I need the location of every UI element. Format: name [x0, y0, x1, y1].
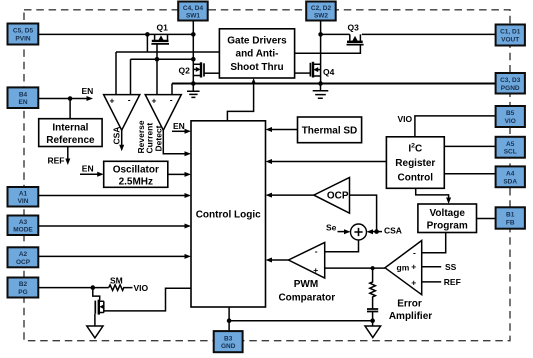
wire VOUT line — [321, 33, 496, 35]
svg-text:VIN: VIN — [18, 198, 29, 205]
wire VIN to control logic — [38, 193, 191, 198]
svg-text:A5: A5 — [506, 141, 515, 148]
wire RCD- drop — [171, 84, 173, 96]
svg-text:REF: REF — [444, 277, 461, 287]
svg-text:VIO: VIO — [398, 114, 413, 124]
wire OCP input branch — [350, 195, 379, 234]
svg-text:+: + — [110, 96, 115, 106]
svg-text:REF: REF — [48, 155, 65, 165]
label VIO (I2C) — [398, 114, 413, 124]
svg-text:C5, D5: C5, D5 — [13, 28, 34, 35]
svg-text:SW2: SW2 — [314, 12, 328, 19]
svg-text:+: + — [152, 96, 157, 106]
block Gate Drivers and Anti-Shoot Thru — [219, 29, 294, 78]
node SW2 top junction — [318, 32, 323, 37]
wire SCL — [444, 145, 496, 147]
transistor Q1 — [151, 34, 169, 44]
svg-text:Comparator: Comparator — [278, 292, 335, 303]
svg-text:CSA: CSA — [384, 226, 402, 236]
pin B1 FB — [496, 207, 525, 228]
ground under Q4 — [313, 84, 329, 99]
svg-text:EN: EN — [82, 86, 94, 96]
svg-text:SS: SS — [445, 262, 457, 272]
svg-text:VIO: VIO — [505, 118, 516, 125]
label Se — [326, 222, 337, 232]
svg-text:Gate Drivers: Gate Drivers — [227, 36, 287, 47]
wire I2C to Voltage Program — [416, 188, 451, 204]
label CSA (rotated) — [112, 127, 122, 145]
pin B2 PG — [8, 278, 39, 298]
label CSA (summing input) — [384, 226, 402, 236]
pin A2 OCP — [8, 247, 39, 267]
svg-text:C3, D3: C3, D3 — [500, 77, 521, 84]
op-amp Reverse Current Detect triangle — [145, 95, 181, 131]
op-amp PWM comparator triangle — [289, 242, 325, 278]
wire error amp - input to voltage program — [422, 233, 446, 253]
svg-text:Amplifier: Amplifier — [389, 311, 432, 322]
wire REF input — [422, 281, 442, 283]
svg-text:SM: SM — [110, 275, 123, 285]
wire SDA — [444, 173, 496, 175]
svg-text:Shoot Thru: Shoot Thru — [230, 62, 283, 73]
node PVIN/CSA+ junction — [145, 32, 150, 52]
wire OCP output to control logic — [266, 193, 314, 198]
svg-text:A1: A1 — [19, 190, 28, 197]
svg-text:-: - — [128, 95, 131, 105]
label SS — [445, 262, 457, 272]
svg-text:VOUT: VOUT — [501, 37, 519, 44]
svg-text:B2: B2 — [19, 281, 28, 288]
resistor compensation — [370, 268, 376, 309]
svg-text:GND: GND — [221, 343, 236, 350]
transistor Q3 — [295, 34, 364, 53]
wire gate bus y52 — [116, 51, 219, 53]
svg-text:Control Logic: Control Logic — [196, 209, 261, 220]
svg-text:C1, D1: C1, D1 — [500, 29, 521, 36]
ground (open triangle) under PG FET — [87, 326, 103, 338]
wire I2C to control logic — [266, 159, 387, 164]
wire PGND rail — [172, 83, 496, 85]
node SW1 top junction — [191, 32, 196, 37]
svg-text:FB: FB — [506, 219, 515, 226]
svg-text:Error: Error — [397, 299, 422, 310]
op-amp Error Amplifier triangle — [385, 241, 422, 295]
svg-text:A3: A3 — [19, 219, 28, 226]
pin C2,D2 SW2 — [306, 2, 336, 21]
svg-text:EN: EN — [173, 121, 185, 131]
capacitor compensation — [367, 309, 378, 321]
svg-text:I2C: I2C — [408, 143, 422, 155]
svg-text:B5: B5 — [506, 110, 515, 117]
wire CSA into summing node — [367, 229, 383, 234]
wire error amp output to PWM + input — [325, 267, 385, 269]
svg-text:OCP: OCP — [16, 259, 31, 266]
wire EN from pin — [38, 96, 93, 119]
label Q1 — [157, 22, 169, 32]
block Internal Reference — [39, 119, 102, 147]
block Thermal SD — [298, 117, 362, 143]
svg-text:VIO: VIO — [134, 283, 149, 293]
label EN (control logic) — [173, 121, 185, 131]
svg-text:Voltage: Voltage — [430, 208, 466, 219]
svg-text:B1: B1 — [506, 212, 515, 219]
wire Se into summing node — [338, 229, 351, 234]
svg-text:Reference: Reference — [46, 135, 95, 146]
label VIO (PG pullup) — [134, 283, 149, 293]
svg-text:+: + — [411, 278, 416, 288]
pin C3,D3 PGND — [496, 73, 525, 94]
svg-text:PWM: PWM — [294, 279, 318, 290]
label PWM Comparator — [278, 279, 335, 303]
label Q4 — [323, 67, 335, 77]
svg-text:SW1: SW1 — [186, 12, 200, 19]
svg-text:A2: A2 — [19, 251, 28, 258]
svg-text:-: - — [413, 247, 416, 257]
wire EN to control logic — [172, 129, 191, 134]
svg-text:and Anti-: and Anti- — [236, 49, 279, 60]
block Voltage Program — [418, 204, 477, 233]
svg-text:A4: A4 — [506, 171, 515, 178]
pin C5,D5 PVIN — [8, 24, 39, 45]
label Reverse Current Detect (rotated) — [136, 120, 164, 153]
wire PWM output to control logic — [266, 258, 289, 263]
wire REF arrow — [65, 147, 70, 166]
ground under Q2 — [187, 84, 200, 98]
svg-text:Detect: Detect — [153, 125, 163, 151]
wire EN to oscillator — [80, 172, 104, 177]
svg-text:SCL: SCL — [504, 149, 517, 156]
svg-text:OCP: OCP — [327, 191, 349, 202]
svg-text:Q3: Q3 — [348, 22, 360, 32]
label EN (top) — [82, 86, 94, 96]
block I2C Register Control — [386, 137, 444, 189]
svg-text:Program: Program — [427, 221, 468, 232]
svg-text:EN: EN — [82, 163, 94, 173]
wire SW2 trunk — [320, 21, 322, 84]
svg-text:SDA: SDA — [503, 178, 517, 185]
ground (open triangle) compensation — [365, 321, 381, 338]
block Control Logic — [191, 121, 266, 307]
svg-text:EN: EN — [18, 99, 27, 106]
label Error Amplifier — [389, 299, 432, 323]
transistor Q2 — [193, 62, 219, 77]
svg-text:C2, D2: C2, D2 — [311, 5, 332, 12]
svg-text:gm: gm — [397, 263, 410, 273]
wire CSA output arrow — [119, 130, 124, 151]
svg-text:-: - — [170, 95, 173, 105]
wire PVIN rail — [38, 33, 193, 35]
op-amp CSA triangle — [104, 95, 140, 131]
wire MODE to control logic — [38, 224, 191, 229]
svg-text:+: + — [313, 265, 318, 275]
svg-text:Q4: Q4 — [323, 67, 335, 77]
wire oscillator to control logic — [168, 172, 191, 177]
wire gate drivers to control logic — [227, 78, 256, 121]
wire Voltage Program to FB pin — [477, 218, 496, 220]
svg-text:2.5MHz: 2.5MHz — [119, 176, 153, 187]
svg-text:C4, D4: C4, D4 — [183, 5, 204, 12]
wire Thermal SD to control logic — [266, 127, 298, 132]
svg-text:Oscillator: Oscillator — [113, 164, 159, 175]
svg-text:Control: Control — [398, 173, 434, 184]
wire CSA+ drop — [115, 52, 117, 95]
svg-text:Q2: Q2 — [179, 66, 191, 76]
node Q4 source on rail — [318, 81, 323, 86]
transistor PG FET — [93, 288, 191, 326]
svg-text:+: + — [411, 262, 416, 272]
svg-text:CSA: CSA — [112, 127, 122, 145]
svg-text:-: - — [315, 246, 318, 256]
pin A5 SCL — [496, 137, 525, 158]
transistor Q4 — [295, 62, 321, 78]
label REF — [48, 155, 65, 165]
block Oscillator 2.5MHz — [104, 161, 168, 187]
pin B4 EN — [8, 87, 39, 108]
node SW1/CSA- junction — [191, 57, 196, 62]
svg-text:Se: Se — [326, 222, 337, 232]
pin B3 GND — [214, 331, 243, 352]
svg-text:MODE: MODE — [13, 227, 33, 234]
resistor SM — [109, 285, 133, 291]
wire summing to PWM - input — [325, 240, 359, 252]
pin C4,D4 SW1 — [178, 2, 208, 21]
wire SW1 trunk — [192, 21, 194, 84]
op-amp OCP triangle — [314, 178, 350, 214]
label SM — [110, 275, 123, 285]
wire PG line — [38, 285, 109, 290]
svg-text:Q1: Q1 — [157, 22, 169, 32]
label Q3 — [348, 22, 360, 32]
pin B5 VIO — [496, 106, 525, 127]
wire VIO to pin — [415, 116, 497, 137]
node Q2 source on rail — [191, 81, 196, 86]
svg-text:PVIN: PVIN — [15, 36, 30, 43]
svg-text:PG: PG — [18, 289, 27, 296]
svg-text:Register: Register — [395, 158, 435, 169]
pin A3 MODE — [8, 216, 39, 236]
svg-text:Internal: Internal — [52, 123, 88, 134]
wire OCP pin to control logic — [38, 254, 191, 259]
summing junction — [351, 224, 367, 240]
label Q2 — [179, 66, 191, 76]
wire Q1 gate to RCD+ — [156, 44, 158, 95]
svg-text:B3: B3 — [224, 335, 233, 342]
wire control logic GND link — [227, 307, 375, 331]
label REF (error amp) — [444, 277, 461, 287]
node Q1 gate / RCD+ junction — [155, 57, 160, 62]
node compensation tap — [371, 266, 375, 270]
wire CSA- link y59 — [131, 59, 194, 95]
wire RCD output to control logic — [163, 130, 191, 156]
svg-text:PGND: PGND — [501, 85, 520, 92]
svg-text:Thermal SD: Thermal SD — [302, 126, 358, 137]
svg-text:B4: B4 — [19, 91, 28, 98]
pin C1,D1 VOUT — [496, 25, 525, 46]
pin A4 SDA — [496, 166, 525, 187]
pin A1 VIN — [8, 187, 39, 207]
wire SS input — [422, 266, 442, 268]
label EN (oscillator) — [82, 163, 94, 173]
